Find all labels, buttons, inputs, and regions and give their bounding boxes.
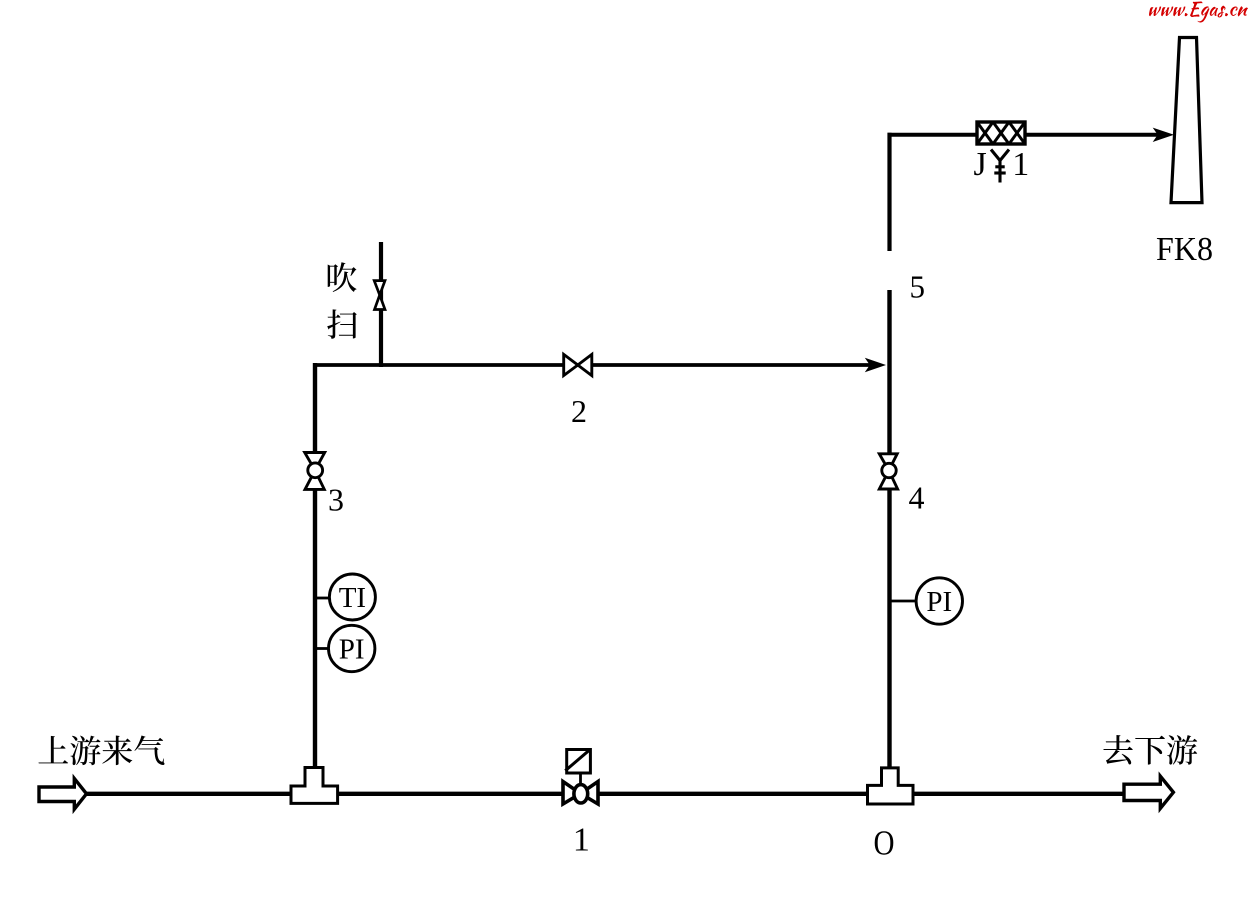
svg-text:1: 1 xyxy=(1012,146,1029,183)
svg-text:O: O xyxy=(874,824,895,863)
label 吹 (purge) xyxy=(328,262,357,292)
gauge PI left xyxy=(329,625,375,671)
label 扫 (purge) xyxy=(327,309,357,339)
wire left riser xyxy=(313,363,317,772)
valve 3 (left riser globe valve) xyxy=(305,453,325,490)
wire purge riser xyxy=(379,242,383,367)
wire main pipe xyxy=(85,792,1124,796)
svg-text:PI: PI xyxy=(926,586,952,618)
flame arrestor JY1 xyxy=(977,122,1025,144)
svg-text:PI: PI xyxy=(339,633,365,665)
gauge PI left stub xyxy=(315,647,330,650)
tee fitting O xyxy=(868,768,914,804)
label 去下游 (to downstream) xyxy=(1103,735,1132,764)
inlet flow arrow xyxy=(39,779,87,810)
valve 1 actuator stem xyxy=(579,772,582,786)
svg-text:4: 4 xyxy=(909,480,925,516)
purge valve xyxy=(374,281,385,310)
watermark www.Egas.cn xyxy=(1149,1,1248,22)
gauge PI right stub xyxy=(890,600,918,603)
valve 2 (header gate valve) xyxy=(564,354,592,375)
svg-text:3: 3 xyxy=(328,482,344,518)
gauge TI xyxy=(329,574,375,620)
wire right riser upper segment xyxy=(887,133,891,251)
valve 1 actuator square xyxy=(567,750,591,774)
svg-text:1: 1 xyxy=(573,822,590,859)
svg-text:5: 5 xyxy=(910,269,926,305)
valve 1 (main line control valve) xyxy=(563,782,598,805)
flow arrowhead at flare stack xyxy=(1153,128,1174,142)
wire flare line xyxy=(888,133,1161,137)
svg-text:J: J xyxy=(974,146,987,183)
tee fitting left xyxy=(291,768,338,804)
outlet flow arrow xyxy=(1124,776,1173,808)
wire top header line xyxy=(313,363,880,367)
svg-text:TI: TI xyxy=(339,582,366,614)
flow arrowhead into right riser xyxy=(865,358,886,372)
valve 4 (right riser globe valve) xyxy=(879,454,897,489)
svg-text:FK8: FK8 xyxy=(1156,231,1213,268)
gauge PI right xyxy=(916,578,962,624)
flare stack FK8 xyxy=(1171,38,1202,203)
svg-text:2: 2 xyxy=(571,393,587,429)
gauge TI stub xyxy=(315,597,331,600)
wire right riser lower segment (below break 5) xyxy=(887,290,891,772)
label ¥ of J¥1 xyxy=(991,150,1009,183)
label 上游来气 (upstream gas) xyxy=(38,736,68,764)
